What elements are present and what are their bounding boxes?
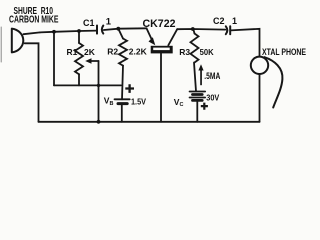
resistor R3 stub top xyxy=(193,29,194,34)
svg-text:C2: C2 xyxy=(213,16,225,26)
svg-text:CARBON MIKE: CARBON MIKE xyxy=(9,14,59,25)
wire C1 to transistor xyxy=(104,28,147,30)
svg-text:2K: 2K xyxy=(84,47,96,57)
resistor R3 zigzag xyxy=(191,34,199,63)
scan edge artifact xyxy=(0,27,2,62)
mid horizontal bus y85 xyxy=(54,84,121,86)
battery VB long plate xyxy=(115,98,130,100)
earphone circle xyxy=(251,57,268,74)
junction dot R2 top xyxy=(116,27,120,31)
earphone bottom wire xyxy=(259,74,261,122)
svg-text:R2: R2 xyxy=(107,47,118,57)
R2 to battery VB wire xyxy=(122,66,123,100)
svg-text:.5MA: .5MA xyxy=(204,71,220,81)
junction dot top rail at x54 xyxy=(52,30,56,34)
top rail right segment xyxy=(177,28,225,31)
1.5MA current arrowhead xyxy=(198,64,203,70)
svg-text:2.2K: 2.2K xyxy=(129,47,148,57)
capacitor C2 left plate (curved) xyxy=(226,26,228,34)
R1 wiper vertical xyxy=(98,61,100,122)
capacitor C2 right plate xyxy=(229,26,231,34)
battery VC bottom stub xyxy=(196,102,198,122)
junction dot R3 top xyxy=(191,27,195,31)
top rail left segment xyxy=(40,31,97,33)
label VB plus sign xyxy=(125,84,134,93)
transistor Q1 collector lead xyxy=(168,29,177,45)
battery VB bottom stub xyxy=(121,105,123,122)
capacitor C1 left plate xyxy=(96,26,98,34)
svg-text:CK722: CK722 xyxy=(143,18,176,30)
mic bottom lead xyxy=(25,43,39,122)
resistor R2 stub top xyxy=(118,29,123,39)
transistor Q1 base lead xyxy=(160,54,162,122)
junction dot R1 top xyxy=(77,29,81,33)
wire C2 to phone corner xyxy=(231,29,260,56)
battery VB short thick plate xyxy=(118,102,127,105)
R3 to battery VC wire xyxy=(194,63,196,92)
label VC plus sign xyxy=(201,103,208,110)
node at x54 xyxy=(53,32,55,86)
junction dot wiper/bus xyxy=(97,84,100,87)
1.5MA current arrow shaft xyxy=(200,69,202,85)
R1 wiper arrowhead xyxy=(85,58,91,64)
mic top lead xyxy=(24,32,41,34)
resistor R1 stub bottom xyxy=(78,74,80,85)
junction dot wiper/rail xyxy=(97,120,101,124)
resistor R2 zigzag xyxy=(119,39,127,66)
svg-text:30V: 30V xyxy=(206,93,219,103)
svg-text:1.5V: 1.5V xyxy=(131,96,146,106)
resistor R1 zigzag xyxy=(75,43,83,74)
Q1 emitter arrowhead xyxy=(149,37,156,45)
battery VC plate1 long xyxy=(190,91,206,93)
svg-text:R1: R1 xyxy=(67,47,78,57)
microphone MIC body xyxy=(12,29,23,53)
svg-text:R3: R3 xyxy=(179,47,190,57)
battery VC plate2 short thick xyxy=(193,93,203,96)
svg-text:C1: C1 xyxy=(83,18,95,28)
transistor Q1 body slit xyxy=(153,48,170,51)
svg-text:XTAL PHONE: XTAL PHONE xyxy=(262,46,306,57)
resistor R1 stub top xyxy=(78,31,80,43)
svg-text:1: 1 xyxy=(106,17,112,28)
svg-text:50K: 50K xyxy=(200,47,215,57)
earphone hook curve xyxy=(265,57,283,107)
battery VC plate3 long xyxy=(190,97,206,99)
R1 wiper arrow line xyxy=(89,60,99,62)
transistor Q1 body bar xyxy=(151,46,173,54)
svg-text:1: 1 xyxy=(232,16,237,26)
bottom rail xyxy=(39,121,260,123)
transistor Q1 emitter lead xyxy=(147,28,152,39)
capacitor C1 right plate (curved) xyxy=(102,26,103,34)
battery VC plate4 short thick xyxy=(193,99,203,102)
